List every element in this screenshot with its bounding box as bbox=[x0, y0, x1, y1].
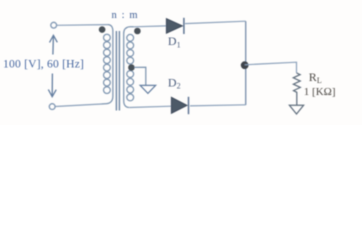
resistor value label 1 [KΩ] bbox=[304, 86, 336, 98]
ground at center tap bbox=[140, 85, 155, 93]
resistor RL label bbox=[309, 70, 322, 85]
wire: right vertical bus bbox=[245, 21, 247, 105]
wire: junction to load corner bbox=[245, 62, 297, 73]
ground at load bbox=[289, 105, 303, 114]
transformer T1 secondary polarity dot bbox=[134, 28, 141, 35]
svg-text:100 [V], 60 [Hz]: 100 [V], 60 [Hz] bbox=[3, 58, 84, 71]
wire: diode D2 to bottom-right corner bbox=[190, 105, 246, 106]
transformer T1 primary polarity dot bbox=[99, 26, 106, 33]
source value label 100 [V], 60 [Hz] bbox=[3, 58, 84, 71]
source polarity arrow up bbox=[50, 35, 58, 54]
diode D1 bbox=[166, 18, 184, 34]
source polarity arrow down bbox=[48, 74, 56, 97]
wire: secondary top to diode D1 bbox=[134, 25, 167, 28]
transformer T1 ratio label n : m bbox=[112, 10, 139, 21]
transformer T1 secondary winding bbox=[124, 27, 134, 108]
wire: diode D1 to top-right corner bbox=[185, 21, 246, 23]
node: center tap junction dot bbox=[128, 64, 135, 71]
svg-text:D1: D1 bbox=[168, 34, 181, 49]
svg-text:n : m: n : m bbox=[112, 10, 139, 21]
wire: center tap to ground bbox=[134, 67, 146, 85]
node: output junction dot bbox=[241, 61, 249, 69]
svg-text:RL: RL bbox=[309, 70, 322, 85]
node: bottom-left source terminal bbox=[49, 104, 55, 110]
diode D2 bbox=[171, 97, 188, 114]
diode D2 label bbox=[168, 75, 181, 90]
wire: secondary bottom to diode D2 bbox=[130, 106, 172, 107]
wire: top-left terminal to transformer primary bbox=[57, 24, 109, 27]
node: top-left source terminal bbox=[51, 22, 57, 28]
resistor RL bbox=[293, 73, 300, 105]
transformer T1 core bbox=[116, 31, 119, 111]
wire: bottom-left terminal to transformer primary bbox=[55, 104, 101, 107]
svg-text:D2: D2 bbox=[168, 75, 181, 90]
diode D1 label bbox=[168, 34, 181, 49]
transformer T1 primary winding bbox=[102, 25, 113, 104]
svg-text:1 [KΩ]: 1 [KΩ] bbox=[304, 86, 336, 98]
